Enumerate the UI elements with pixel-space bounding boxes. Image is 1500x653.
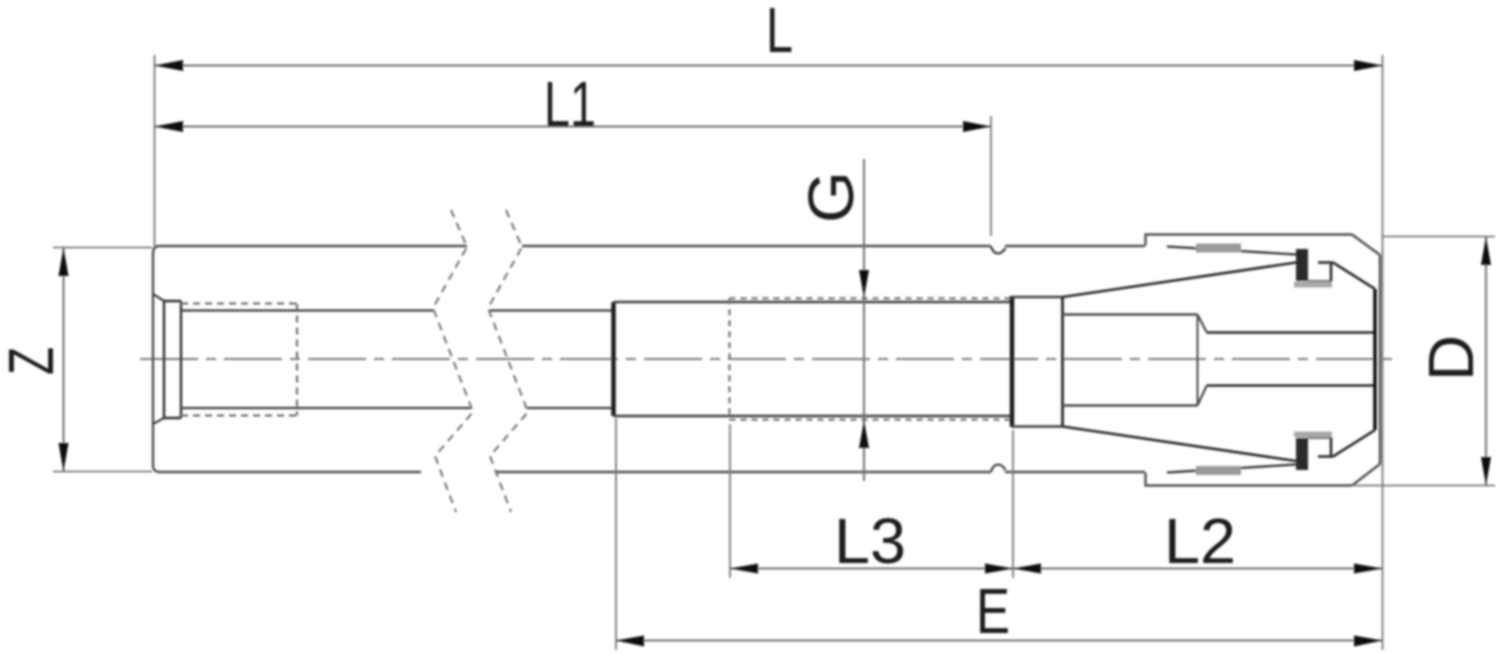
body outline left shank <box>153 246 1145 472</box>
dimension D arrow top <box>1481 237 1491 266</box>
break line right zigzag <box>488 210 528 512</box>
dimension E line <box>616 640 1383 642</box>
dimension E arrow right <box>1354 636 1383 647</box>
nose chamfer <box>1198 315 1207 406</box>
nut front groove line bottom <box>1167 465 1296 473</box>
dimension L3 arrow right <box>985 564 1013 574</box>
dimension L extension left <box>154 55 156 246</box>
dimension L3 arrow left <box>730 564 758 574</box>
dimension G arrow top <box>859 270 869 298</box>
collet cone bottom <box>1063 427 1297 462</box>
collet cylinder <box>1012 297 1062 427</box>
dimension L2 arrow left <box>1013 564 1041 574</box>
dimension Z line <box>63 248 65 472</box>
spanner slot bottom <box>1294 430 1375 470</box>
dimension L1 extension right <box>990 116 992 236</box>
nut inner end face <box>1373 289 1377 430</box>
dimension L1 arrow left <box>155 121 184 132</box>
dimension D extension top <box>1383 236 1495 238</box>
thread crest dashed on screw <box>730 298 1013 419</box>
dimension L arrow right <box>1354 60 1383 71</box>
relief notch bottom at L1 end <box>991 465 1006 472</box>
svg-text:E: E <box>976 575 1010 647</box>
break line left zigzag <box>433 210 473 512</box>
dimension G line <box>863 159 865 481</box>
collet cone top <box>1063 263 1297 298</box>
nut front groove line top <box>1167 247 1296 255</box>
center axis line <box>140 358 1398 360</box>
dimension Z extension bottom <box>53 471 152 473</box>
dimension L3 extension left <box>729 424 731 578</box>
svg-text:D: D <box>1415 335 1487 381</box>
collet bore lines <box>1207 333 1376 386</box>
svg-text:L3: L3 <box>834 505 906 577</box>
dimension L3 line <box>730 568 1013 570</box>
svg-text:Z: Z <box>0 347 67 375</box>
dimension Z extension top <box>53 247 152 249</box>
dimension D line <box>1485 237 1487 486</box>
spanner slot top <box>1294 249 1375 289</box>
dimension L1 arrow right <box>963 121 991 132</box>
collet face <box>1061 296 1064 427</box>
svg-text:G: G <box>795 171 867 223</box>
dimension L2 line <box>1013 568 1383 570</box>
dimension L1 line <box>155 126 992 128</box>
bore entry ring left <box>164 301 181 418</box>
inner screw narrow section lines <box>181 311 613 409</box>
nut groove band top <box>1196 244 1241 253</box>
screw shoulder at E datum <box>611 302 616 416</box>
dimension L3-L2 shared extension <box>1012 430 1014 578</box>
dimension G arrow bottom <box>859 421 869 449</box>
nut groove band bottom <box>1196 466 1241 475</box>
dimension E extension left <box>615 418 617 650</box>
dimension D extension bottom <box>1352 485 1495 487</box>
dimension D arrow bottom <box>1481 457 1491 486</box>
dimension Z arrow bottom <box>59 443 69 472</box>
dimension L2 arrow right <box>1354 564 1383 574</box>
collet nose <box>1063 315 1198 406</box>
collet rear shoulder <box>1010 296 1015 427</box>
dimension Z arrow top <box>59 248 69 277</box>
relief notch top at L1 end <box>991 247 1006 254</box>
dimension E arrow left <box>616 636 644 647</box>
dimension right shared extension line <box>1382 55 1384 650</box>
dimension L line <box>155 65 1383 67</box>
svg-text:L: L <box>766 0 793 66</box>
dimension L arrow left <box>155 60 184 71</box>
hidden thread dashed (left bore) <box>181 304 297 416</box>
screw wide section outline <box>614 302 1013 416</box>
bore chamfer diagonals <box>153 294 164 424</box>
svg-text:L2: L2 <box>1164 505 1236 577</box>
nut sleeve outline <box>1146 235 1381 486</box>
svg-text:L1: L1 <box>544 68 596 140</box>
